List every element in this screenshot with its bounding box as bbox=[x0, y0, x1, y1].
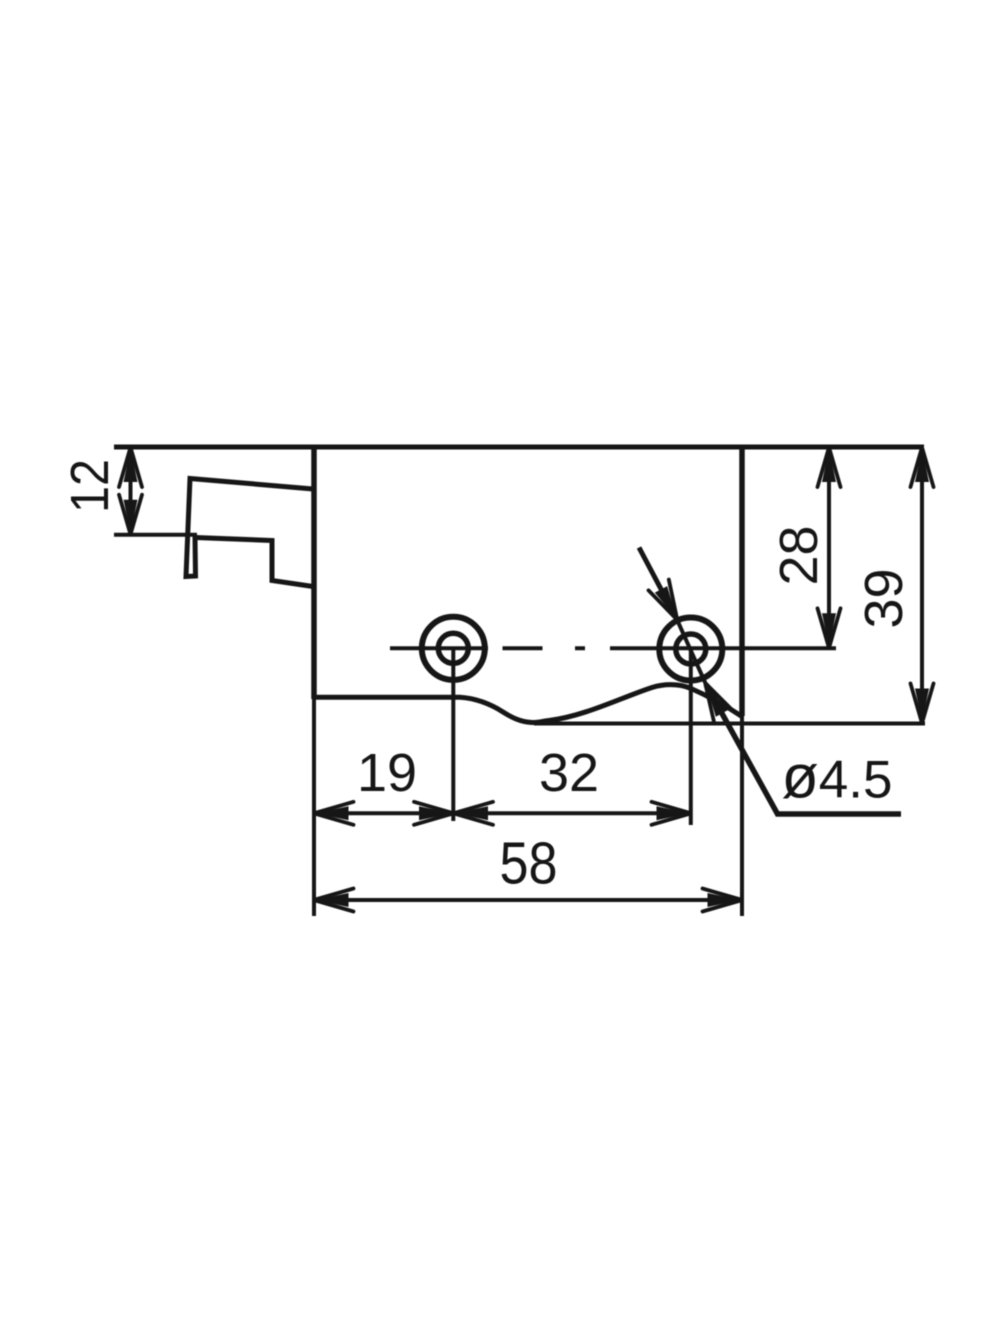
dim 19 dimension line bbox=[318, 811, 449, 815]
svg-text:58: 58 bbox=[500, 831, 558, 897]
svg-text:12: 12 bbox=[60, 459, 120, 513]
hole H1 inner circle bbox=[438, 633, 468, 663]
wavy broken-out bottom edge of plate bbox=[314, 685, 742, 723]
hole H2 outer circle bbox=[659, 618, 722, 681]
dim 58 dimension line bbox=[318, 898, 738, 902]
plate right edge bbox=[739, 445, 745, 717]
dim 12 lower extension line bbox=[114, 533, 197, 537]
dim 39 bottom extension line bbox=[534, 722, 925, 726]
svg-text:28: 28 bbox=[769, 525, 829, 585]
dim 28 dimension line bbox=[827, 451, 831, 644]
hole H1 outer circle bbox=[422, 617, 485, 680]
svg-text:39: 39 bbox=[854, 568, 914, 628]
clip / hook profile on left bbox=[186, 479, 313, 587]
hole H2 vertical extension line bbox=[689, 649, 693, 825]
hole H1 vertical extension line bbox=[451, 649, 455, 821]
hole H2 inner circle bbox=[676, 634, 706, 664]
svg-text:ø4.5: ø4.5 bbox=[782, 743, 893, 811]
top extension line / plate top edge bbox=[114, 445, 924, 450]
svg-text:32: 32 bbox=[539, 743, 599, 803]
leader line for diameter 4.5 bbox=[706, 685, 901, 815]
plate left edge bbox=[311, 445, 317, 700]
leader line through hole H2 bbox=[677, 619, 707, 685]
right extension line (to 58 dim) bbox=[740, 716, 744, 916]
svg-text:19: 19 bbox=[357, 743, 417, 803]
dim 12 dimension line with arrows bbox=[129, 451, 133, 531]
dim 32 dimension line bbox=[458, 811, 687, 815]
pointer arrow at hole H2 (upper left) bbox=[639, 548, 671, 609]
dim 39 dimension line bbox=[920, 451, 924, 718]
center line through holes (dash-dot) bbox=[390, 646, 836, 650]
left extension line (to 58 dim) bbox=[312, 699, 316, 916]
